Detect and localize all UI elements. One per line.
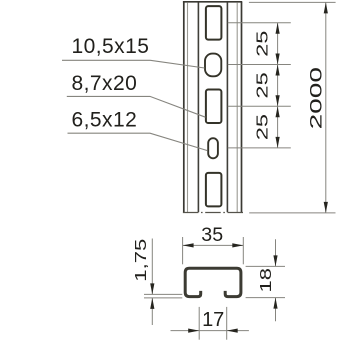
rail front view: left outer edge xyxy=(183,2,185,212)
extension line hole 4 center xyxy=(228,147,291,149)
leader line for 6,5x12 xyxy=(68,133,208,150)
svg-text:35: 35 xyxy=(201,224,223,246)
arrow up 2000 xyxy=(324,2,328,13)
svg-text:17: 17 xyxy=(202,309,224,331)
extension line hole 2 center xyxy=(228,64,291,66)
extension line 35 left xyxy=(182,237,184,264)
svg-text:6,5x12: 6,5x12 xyxy=(72,109,138,132)
rail front view: left fold line xyxy=(187,2,189,212)
dimension line 2000 xyxy=(325,2,327,213)
slot hole 8,7x20 (bottom) xyxy=(206,173,222,207)
slot hole 8,7x20 (top) xyxy=(206,6,222,40)
extension line hole 3 center xyxy=(228,105,291,107)
arrows at y64.5 xyxy=(276,54,280,65)
svg-text:18: 18 xyxy=(258,268,275,292)
arrow left 17 xyxy=(227,329,238,333)
cross-section C profile xyxy=(185,268,241,296)
arrow right 35 xyxy=(232,243,243,247)
rail front view: top edge xyxy=(183,1,242,3)
oblong hole 10,5x15 xyxy=(205,54,221,77)
extension line 18 bottom xyxy=(246,297,285,299)
svg-text:1,75: 1,75 xyxy=(133,239,150,282)
rail front view: left lip edge xyxy=(197,2,199,212)
dimension line 17 xyxy=(171,330,249,332)
dimension stems 1,75 xyxy=(151,239,153,326)
svg-text:2000: 2000 xyxy=(306,67,324,129)
arrow up at y22.8 xyxy=(276,23,280,34)
dimension line 25 spacing xyxy=(277,23,279,148)
leader line for 8,7x20 xyxy=(67,96,206,117)
arrow right 17 xyxy=(188,329,199,333)
svg-text:25: 25 xyxy=(254,72,271,98)
extension line hole 1 center xyxy=(228,22,291,24)
arrow down 18 xyxy=(273,255,277,266)
rail front view: bottom break line (dash-dot) xyxy=(183,212,243,214)
rail front view: right fold line xyxy=(236,2,238,212)
slot hole 8,7x20 (middle) xyxy=(206,90,222,124)
arrow down at y147.9 xyxy=(276,137,280,148)
svg-text:8,7x20: 8,7x20 xyxy=(72,72,138,95)
svg-text:25: 25 xyxy=(254,114,271,140)
arrow down 1,75 xyxy=(150,283,154,294)
extension line 35 right xyxy=(242,237,244,264)
extension line 2000 bottom xyxy=(249,212,335,214)
arrow up 18 xyxy=(273,298,277,309)
oblong hole 6,5x12 xyxy=(208,138,218,158)
thickness lines 1,75 xyxy=(144,294,182,298)
extension line 17 left xyxy=(198,307,200,340)
rail front view: right lip edge xyxy=(226,2,228,212)
svg-text:25: 25 xyxy=(254,31,271,57)
rail front view: right outer edge xyxy=(241,2,243,212)
arrow down 2000 xyxy=(324,202,328,213)
extension line 2000 top xyxy=(249,1,336,3)
leader line for 10,5x15 xyxy=(62,60,205,68)
arrows at y106.2 xyxy=(276,95,280,106)
arrow up 1,75 xyxy=(150,298,154,309)
svg-text:10,5x15: 10,5x15 xyxy=(72,35,150,58)
arrow left 35 xyxy=(183,243,194,247)
extension line 18 top xyxy=(246,265,285,267)
dimension line 35 xyxy=(183,244,244,246)
extension line 17 right xyxy=(226,307,228,340)
dimension stems 18 xyxy=(275,239,277,321)
